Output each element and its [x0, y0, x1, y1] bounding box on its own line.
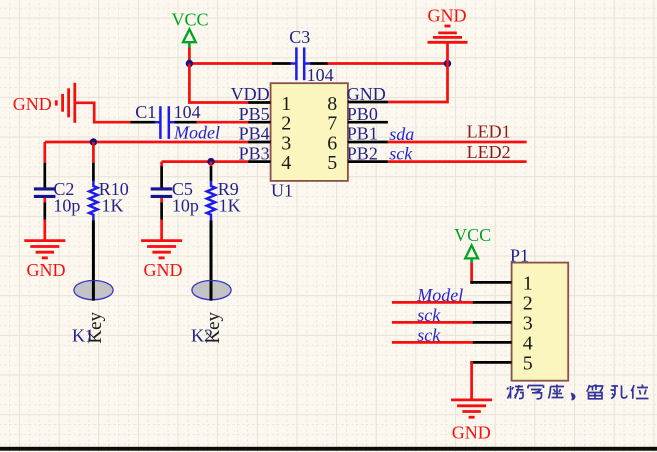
- P1 pin 5 stub: [470, 361, 511, 364]
- svg-text:U1: U1: [271, 180, 293, 200]
- key K2 lead through button: [210, 281, 213, 301]
- svg-text:PB1: PB1: [347, 124, 378, 144]
- annotation chinese: xie (write): [528, 386, 544, 399]
- svg-text:sck: sck: [417, 305, 441, 325]
- P1 pin 2 stub: [472, 301, 512, 304]
- annotation chinese: kong (hole): [611, 386, 628, 399]
- svg-text:2: 2: [281, 113, 291, 135]
- junction at VCC bus: [186, 60, 193, 67]
- power port VCC at P1: [454, 225, 491, 263]
- wire P1 pin2: [392, 301, 473, 304]
- power port GND under C5: [141, 241, 182, 280]
- svg-text:Model: Model: [173, 123, 220, 143]
- svg-text:4: 4: [523, 333, 533, 355]
- svg-text:1: 1: [281, 93, 291, 115]
- svg-text:1K: 1K: [219, 195, 241, 215]
- power port GND under P1: [451, 400, 492, 442]
- svg-text:VCC: VCC: [454, 225, 491, 245]
- svg-text:C3: C3: [289, 27, 310, 47]
- connector P1 body: [512, 263, 569, 381]
- wire GND drop to pin8: [388, 64, 448, 103]
- wire C2 to GND: [43, 220, 46, 241]
- U1 pin 2 stub: [248, 121, 270, 124]
- annotation chinese: shao (burn): [507, 385, 524, 399]
- power port GND under C2: [24, 241, 65, 280]
- resistor R9: [207, 162, 241, 221]
- svg-text:GND: GND: [144, 260, 183, 280]
- svg-text:LED1: LED1: [467, 122, 511, 142]
- svg-text:Key: Key: [85, 311, 106, 343]
- key K1 lead: [92, 220, 95, 300]
- svg-text:PB4: PB4: [239, 124, 270, 144]
- svg-text:PB5: PB5: [239, 104, 270, 124]
- wire LED1: [388, 141, 527, 144]
- wire row PB4: [45, 141, 249, 144]
- svg-text:104: 104: [307, 65, 334, 85]
- svg-text:104: 104: [174, 102, 201, 122]
- svg-text:VDD: VDD: [231, 84, 270, 104]
- svg-text:PB0: PB0: [347, 104, 378, 124]
- svg-text:Key: Key: [203, 311, 224, 343]
- svg-text:P1: P1: [510, 245, 529, 265]
- svg-text:sck: sck: [417, 325, 441, 345]
- key K1 lead through button: [92, 281, 95, 301]
- capacitor C3: [272, 27, 334, 85]
- wire LED2: [388, 160, 527, 163]
- power port GND left: [13, 83, 75, 123]
- svg-text:10p: 10p: [172, 195, 199, 215]
- svg-text:3: 3: [523, 313, 533, 335]
- wire C1 to pin2: [197, 121, 249, 124]
- svg-text:GND: GND: [452, 422, 491, 442]
- wire top bus right segment: [328, 62, 448, 65]
- U1 pin 5 stub: [348, 160, 388, 163]
- svg-text:GND: GND: [428, 6, 467, 26]
- junction PB3/R9: [207, 158, 214, 165]
- wire PB4 down to C2: [43, 142, 46, 164]
- wire P1 pin4: [392, 341, 473, 344]
- IC U1 body: [271, 83, 348, 181]
- wire row PB3: [162, 160, 249, 163]
- svg-text:7: 7: [327, 113, 337, 135]
- svg-text:5: 5: [327, 152, 337, 174]
- svg-text:4: 4: [281, 152, 291, 174]
- capacitor C5: [151, 166, 199, 220]
- annotation chinese: zuo (socket): [549, 385, 565, 399]
- U1 pin 1 stub: [248, 101, 270, 104]
- wire C5 to GND: [160, 220, 163, 241]
- U1 pin 8 stub: [348, 101, 388, 104]
- wire P1 pin3: [392, 321, 473, 324]
- key K2 lead: [210, 220, 213, 300]
- wire top bus left segment: [188, 62, 272, 65]
- P1 pin 4 stub: [472, 341, 512, 344]
- annotation chinese: wei (position): [631, 385, 649, 399]
- svg-text:8: 8: [327, 93, 337, 115]
- key K1 button: [74, 281, 113, 300]
- power port VCC top: [171, 9, 208, 48]
- wire GND left to C1: [75, 103, 131, 122]
- svg-text:VCC: VCC: [171, 9, 208, 29]
- svg-text:1: 1: [523, 273, 533, 295]
- svg-text:C1: C1: [135, 102, 156, 122]
- svg-text:GND: GND: [13, 94, 52, 114]
- U1 pin 6 stub: [348, 141, 388, 144]
- resistor R10: [89, 142, 129, 220]
- annotation chinese: comma: [572, 394, 575, 400]
- capacitor C2: [34, 163, 81, 220]
- svg-text:5: 5: [523, 353, 533, 375]
- wire VCC drop to pin1: [189, 64, 248, 103]
- svg-text:PB3: PB3: [239, 143, 270, 163]
- power port GND top: [428, 6, 468, 64]
- svg-text:GND: GND: [347, 84, 386, 104]
- key K2 button: [192, 281, 231, 300]
- wire VCC stem to bus: [188, 48, 191, 64]
- svg-text:10p: 10p: [53, 195, 80, 215]
- wire VCC to P1 pin1: [470, 263, 473, 284]
- svg-text:1K: 1K: [102, 195, 124, 215]
- annotation chinese: liu (keep): [587, 385, 603, 399]
- svg-text:Model: Model: [416, 285, 463, 305]
- svg-text:2: 2: [523, 293, 533, 315]
- U1 pin 3 stub: [248, 141, 270, 144]
- wire P1 pin5 to GND: [470, 361, 473, 400]
- P1 pin 3 stub: [472, 321, 512, 324]
- junction at GND drop: [444, 60, 451, 67]
- svg-text:GND: GND: [27, 260, 66, 280]
- capacitor C1: [131, 102, 201, 139]
- U1 pin 7 stub: [348, 121, 388, 124]
- svg-text:LED2: LED2: [467, 142, 511, 162]
- svg-text:PB2: PB2: [347, 143, 378, 163]
- sheet border bottom: [0, 447, 657, 451]
- wire PB3 down to C5: [160, 162, 163, 167]
- P1 pin 1 stub: [470, 281, 511, 284]
- U1 pin 4 stub: [248, 160, 270, 163]
- junction PB4/R10: [90, 138, 97, 145]
